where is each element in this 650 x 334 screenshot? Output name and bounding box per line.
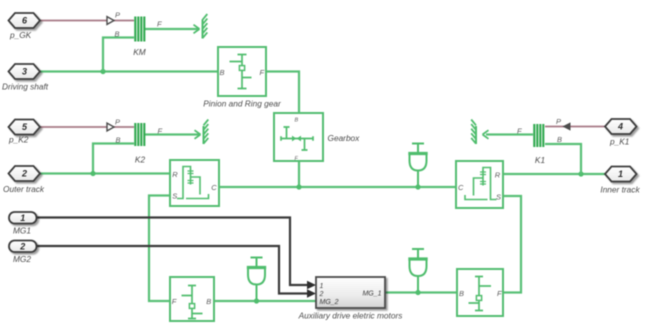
svg-text:MG_2: MG_2 [320, 299, 339, 306]
svg-text:Driving shaft: Driving shaft [2, 82, 49, 92]
svg-text:1: 1 [618, 169, 623, 179]
svg-text:F: F [260, 68, 265, 77]
inertia on carrier line [408, 144, 427, 188]
wire p_GK to KM P (physical signal) [40, 20, 134, 22]
port 4 p_K1 [605, 119, 637, 134]
wire Outer track to planetary R [40, 172, 170, 174]
clutch K1 plates [534, 124, 543, 147]
svg-text:2: 2 [319, 291, 324, 298]
block planetary gear right [456, 161, 503, 208]
junction K1 B / Inner track wire [578, 171, 583, 176]
junction inertia / MG_1 wire [415, 290, 420, 295]
label Inner track [600, 185, 640, 195]
inertia on MG_1 wire [408, 249, 427, 293]
svg-text:B: B [220, 68, 225, 77]
svg-text:2: 2 [21, 169, 27, 179]
svg-text:B: B [557, 135, 562, 144]
label MG1 [13, 226, 31, 236]
wire MG1 signal [37, 218, 308, 286]
label Auxiliary drive electric motors [298, 311, 403, 321]
ground reference for K1 [471, 120, 488, 145]
port 5 p_K2 [9, 120, 41, 135]
block simple gear lower-right [457, 269, 503, 316]
svg-text:F: F [172, 297, 177, 306]
svg-text:Auxiliary drive eletric motors: Auxiliary drive eletric motors [298, 311, 403, 321]
svg-text:S: S [496, 193, 501, 202]
block planetary gear left [170, 160, 219, 206]
port 3 Driving shaft [9, 64, 41, 79]
port 1 Inner track [605, 167, 637, 182]
wire planetary R R to Inner track [503, 173, 605, 175]
ground reference for KM [194, 14, 208, 39]
svg-text:F: F [158, 127, 163, 136]
clutch KM plates [135, 17, 144, 42]
svg-text:S: S [172, 192, 177, 201]
wire KM B [103, 38, 134, 72]
port letter P of K1 [556, 117, 561, 126]
svg-text:Pinion and Ring gear: Pinion and Ring gear [203, 99, 282, 109]
svg-text:B: B [459, 289, 464, 298]
svg-text:B: B [115, 30, 120, 39]
clutch K2 plates [135, 123, 144, 146]
wire p_K2 to K2 P (physical signal) [40, 126, 134, 128]
wire K1 F to reference [486, 133, 533, 135]
svg-text:F: F [497, 289, 502, 298]
svg-text:4: 4 [617, 122, 623, 132]
svg-text:R: R [172, 170, 178, 179]
wire planetary L S to gear F [149, 196, 170, 302]
svg-text:MG2: MG2 [13, 254, 31, 264]
svg-text:Gearbox: Gearbox [328, 133, 361, 143]
svg-text:p_GK: p_GK [9, 30, 32, 40]
wire KM F to reference [145, 28, 199, 30]
block Gearbox [274, 113, 323, 162]
arrow on p_K2 line [107, 123, 114, 131]
wire MG2 signal [37, 246, 308, 294]
svg-text:p_K1: p_K1 [609, 137, 629, 147]
label Outer track [3, 184, 45, 194]
svg-text:p_K2: p_K2 [8, 135, 29, 145]
svg-text:P: P [115, 11, 120, 20]
wire K2 B [93, 144, 134, 174]
port letter F of K2 [158, 127, 163, 136]
label p_K2 [8, 135, 29, 145]
svg-text:Inner track: Inner track [600, 185, 640, 195]
wire K2 F to reference [145, 133, 200, 135]
wire K1 B [545, 144, 581, 174]
svg-text:C: C [211, 183, 217, 192]
port letter F of KM [157, 20, 162, 29]
junction inertia / carrier line [415, 184, 420, 189]
label K2 [135, 155, 146, 165]
wire planetary R S to gear F [503, 196, 521, 293]
wire Driving shaft to Pinion B [40, 70, 218, 72]
port letter B of K2 [116, 136, 121, 145]
inport 2 MG2 [9, 241, 37, 253]
svg-text:F: F [517, 127, 522, 136]
subsystem MG_2 Auxiliary drive electric motors [316, 277, 385, 308]
svg-text:K2: K2 [135, 155, 146, 165]
port letter F of K1 [517, 127, 522, 136]
label KM [133, 47, 146, 57]
svg-text:3: 3 [22, 67, 27, 77]
svg-text:C: C [458, 183, 464, 192]
label p_GK [9, 30, 32, 40]
svg-text:1: 1 [320, 283, 324, 290]
wire gear B to MG_2 port [214, 300, 316, 302]
svg-text:P: P [115, 118, 120, 127]
label Pinion and Ring gear [203, 99, 282, 109]
block simple gear lower-left [170, 277, 214, 321]
wire carrier line planetary L C to planetary R C [219, 186, 456, 188]
wire Pinion F to Gearbox top [266, 72, 299, 114]
wire Gearbox bottom to carrier line [298, 161, 300, 187]
port 2 Outer track [9, 166, 41, 181]
svg-text:F: F [157, 20, 162, 29]
svg-text:1: 1 [20, 213, 25, 223]
port 6 p_GK [9, 13, 41, 28]
svg-text:MG_1: MG_1 [362, 291, 381, 298]
svg-text:MG1: MG1 [13, 226, 31, 236]
label K1 [535, 155, 545, 165]
arrow on p_GK line [107, 17, 114, 25]
inport 1 MG1 [9, 212, 37, 224]
junction Gearbox / carrier line [296, 184, 301, 189]
junction Outer track / K2 B [90, 171, 95, 176]
wire K1 P to p_K1 (physical signal) [545, 126, 605, 128]
port letter P of K2 [115, 118, 120, 127]
port letter B of KM [115, 30, 120, 39]
label MG2 [13, 254, 31, 264]
svg-text:Outer track: Outer track [3, 184, 45, 194]
svg-text:P: P [556, 117, 561, 126]
wire MG_1 to gear B [385, 291, 457, 293]
block Pinion and Ring gear [218, 47, 266, 96]
svg-text:B: B [206, 297, 211, 306]
label Driving shaft [2, 82, 49, 92]
label p_K1 [609, 137, 629, 147]
arrow on p_K1 line [564, 123, 571, 130]
inertia on MG_2 wire [247, 258, 266, 302]
junction Driving shaft / KM B [100, 69, 105, 74]
port letter B of K1 [557, 135, 562, 144]
junction inertia / MG_2 wire [254, 298, 259, 303]
port letter P of KM [115, 11, 120, 20]
svg-text:B: B [295, 118, 299, 124]
svg-text:R: R [495, 171, 501, 180]
ground reference for K2 [195, 120, 209, 145]
svg-text:K1: K1 [535, 155, 545, 165]
svg-text:B: B [116, 136, 121, 145]
svg-text:2: 2 [19, 242, 25, 252]
label Gearbox [328, 133, 361, 143]
svg-text:KM: KM [133, 47, 146, 57]
arrowhead MG2 into block port 2 [307, 289, 316, 297]
arrowhead MG1 into block port 1 [307, 281, 316, 289]
